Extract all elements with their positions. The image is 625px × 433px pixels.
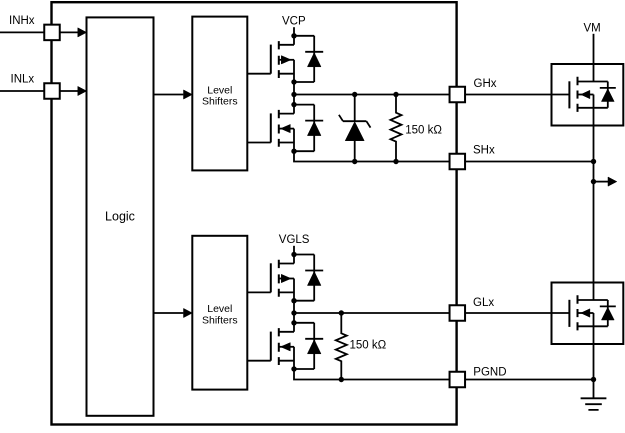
wire Q2 source to SHx line — [294, 151, 450, 161]
Logic block — [87, 17, 154, 415]
wire GLx to external gate — [465, 312, 569, 314]
high-side predriver FET Q1 channel segments — [278, 41, 280, 78]
wire INLx pad to Logic with arrow — [60, 90, 79, 92]
M1 high-side power FET drain wire — [578, 81, 608, 83]
pin pad SHx — [450, 154, 466, 170]
M2 low-side power FET body stub wire — [578, 312, 594, 314]
resistor R2 150k gate-source — [336, 313, 347, 380]
node phase output junction — [591, 179, 596, 184]
external MOSFET box M1 high-side power FET — [552, 64, 624, 126]
wire Q4 source to PGND line — [294, 369, 450, 380]
wire Logic to top Level Shifters with arrow — [154, 94, 184, 96]
wire VM to external FET drain — [593, 34, 595, 82]
pin pad INHx — [44, 25, 60, 41]
svg-text:SHx: SHx — [473, 145, 495, 157]
wire GLx internal line — [294, 312, 450, 314]
svg-text:GHx: GHx — [474, 78, 497, 90]
low-side predriver FET Q2 body diode — [294, 105, 314, 152]
svg-text:Level: Level — [207, 303, 232, 315]
svg-text:150 kΩ: 150 kΩ — [405, 125, 442, 137]
svg-text:Shifters: Shifters — [202, 314, 238, 326]
low-side predriver FET Q2 drain stub wire — [279, 105, 294, 114]
node at high-side predriver FET Q1 drain — [291, 33, 296, 38]
node at low-side predriver FET Q4 source — [291, 366, 296, 371]
node at low-side predriver FET Q2 drain — [291, 102, 296, 107]
low-side predriver FET Q2 body stub wire — [279, 128, 294, 130]
M1 high-side power FET channel segments — [577, 77, 579, 112]
svg-text:INHx: INHx — [9, 15, 35, 27]
wire phase output stub with arrow — [594, 181, 609, 183]
svg-text:Logic: Logic — [105, 210, 135, 224]
svg-text:GLx: GLx — [473, 297, 494, 309]
high-side predriver FET Q1 source stub wire — [279, 60, 294, 82]
ground symbol — [581, 398, 607, 410]
zener diode D1 gate clamp — [354, 95, 356, 162]
node at high-side predriver FET Q3 drain — [291, 252, 296, 257]
wire GHx to external gate — [465, 94, 569, 96]
low-side predriver FET Q4 channel segments — [278, 328, 280, 365]
wire INLx input lead — [0, 90, 44, 92]
high-side predriver FET Q1 body diode — [294, 36, 314, 82]
high-side predriver FET Q1 drain stub wire — [279, 36, 294, 45]
node GLx junction — [291, 310, 296, 315]
node zener top — [352, 92, 357, 97]
svg-text:VGLS: VGLS — [279, 234, 310, 246]
node R2 bottom — [339, 377, 344, 382]
M2 low-side power FET body diode — [600, 300, 616, 326]
M1 high-side power FET body stub wire — [578, 94, 594, 96]
high-side predriver FET Q3 gate lead wire — [247, 291, 270, 293]
bottom Level Shifters block — [192, 236, 247, 390]
svg-text:Shifters: Shifters — [202, 96, 238, 108]
node R1 top — [393, 92, 398, 97]
svg-text:150 kΩ: 150 kΩ — [350, 340, 387, 352]
low-side predriver FET Q2 source stub wire — [279, 129, 294, 152]
node PGND junction — [591, 377, 596, 382]
high-side predriver FET Q1 body arrow — [281, 56, 291, 64]
high-side predriver FET Q3 source stub wire — [279, 279, 294, 301]
wire between FETs top stage — [293, 82, 295, 105]
external MOSFET box M2 low-side power FET — [552, 283, 624, 345]
top Level Shifters block — [192, 17, 247, 171]
svg-text:PGND: PGND — [473, 367, 506, 379]
wire INHx input lead — [0, 31, 44, 33]
low-side predriver FET Q2 body arrow — [281, 124, 291, 132]
svg-text:INLx: INLx — [11, 73, 35, 85]
M2 low-side power FET gate bar — [568, 300, 570, 327]
low-side predriver FET Q4 body diode — [294, 323, 314, 369]
pin pad INLx — [44, 83, 60, 99]
high-side predriver FET Q3 body diode — [294, 255, 314, 301]
M2 low-side power FET drain wire — [578, 299, 608, 301]
M1 high-side power FET source wire — [578, 95, 608, 108]
node at low-side predriver FET Q4 drain — [291, 320, 296, 325]
M1 high-side power FET body diode — [600, 82, 616, 108]
high-side predriver FET Q1 gate bar — [270, 45, 272, 74]
node R1 bottom — [393, 159, 398, 164]
node zener bottom — [352, 159, 357, 164]
wire M1 source down to SHx node — [593, 108, 595, 162]
wire Logic to bottom Level Shifters with arrow — [154, 312, 184, 314]
wire VGLS stub — [293, 246, 295, 255]
high-side predriver FET Q1 body stub wire — [279, 59, 294, 61]
low-side predriver FET Q2 gate bar — [270, 113, 272, 142]
M2 low-side power FET channel segments — [577, 295, 579, 330]
node GHx junction — [291, 92, 296, 97]
wire SHx node down to M2 drain — [593, 162, 595, 301]
low-side predriver FET Q4 body stub wire — [279, 346, 294, 348]
low-side predriver FET Q4 source stub wire — [279, 347, 294, 369]
pin pad PGND — [450, 372, 466, 388]
node R2 top — [339, 310, 344, 315]
wire INHx pad to Logic with arrow — [60, 31, 79, 33]
low-side predriver FET Q2 gate lead wire — [247, 142, 270, 144]
resistor R1 150k gate-source — [391, 95, 402, 162]
high-side predriver FET Q3 channel segments — [278, 260, 280, 297]
wire PGND external line — [465, 379, 594, 381]
wire to ground — [593, 380, 595, 399]
wire between FETs bottom stage — [293, 301, 295, 323]
high-side predriver FET Q3 drain stub wire — [279, 255, 294, 264]
wire SHx external line — [465, 161, 594, 163]
M2 low-side power FET source wire — [578, 313, 608, 326]
low-side predriver FET Q2 channel segments — [278, 110, 280, 147]
outer device boundary box — [52, 2, 457, 424]
M2 low-side power FET body arrow — [581, 309, 590, 317]
node at low-side predriver FET Q2 source — [291, 149, 296, 154]
high-side predriver FET Q1 gate lead wire — [247, 73, 270, 75]
wire VCP stub — [293, 27, 295, 36]
svg-text:Level: Level — [207, 84, 232, 96]
low-side predriver FET Q4 drain stub wire — [279, 323, 294, 332]
node SHx junction — [591, 159, 596, 164]
svg-text:VCP: VCP — [282, 16, 306, 28]
high-side predriver FET Q3 body arrow — [281, 274, 291, 282]
low-side predriver FET Q4 body arrow — [281, 343, 291, 351]
node at high-side predriver FET Q1 source — [291, 79, 296, 84]
wire M2 source down to PGND node — [593, 326, 595, 379]
high-side predriver FET Q3 gate bar — [270, 263, 272, 292]
wire GHx internal line — [294, 94, 450, 96]
low-side predriver FET Q4 gate lead wire — [247, 360, 270, 362]
pin pad GHx — [450, 87, 466, 103]
low-side predriver FET Q4 gate bar — [270, 332, 272, 361]
pin pad GLx — [450, 305, 466, 321]
high-side predriver FET Q3 body stub wire — [279, 278, 294, 280]
svg-text:VM: VM — [584, 22, 601, 34]
M1 high-side power FET gate bar — [568, 81, 570, 108]
node at high-side predriver FET Q3 source — [291, 298, 296, 303]
M1 high-side power FET body arrow — [581, 90, 590, 98]
